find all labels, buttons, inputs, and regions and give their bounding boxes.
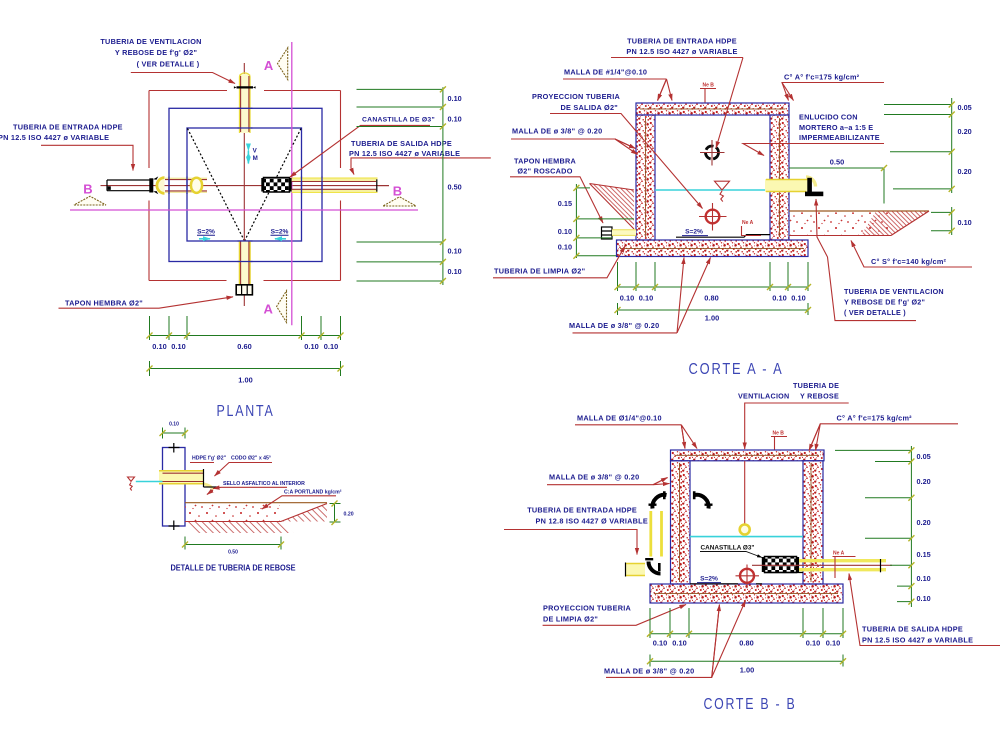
svg-text:0.10: 0.10 [639,294,653,303]
svg-text:0.10: 0.10 [448,247,462,256]
svg-text:PN 12.5 ISO 4427 ø VARIABLE: PN 12.5 ISO 4427 ø VARIABLE [0,133,109,142]
svg-text:TAPON HEMBRA: TAPON HEMBRA [514,157,577,166]
A-A right dimension chain [884,98,952,235]
elbow top inside wall [695,495,709,509]
svg-text:0.10: 0.10 [448,267,462,276]
elbow black [203,469,205,487]
svg-text:C° A° f'c=175 kg/cm²: C° A° f'c=175 kg/cm² [784,73,860,82]
entry vertical pipe yellow [651,511,662,557]
horizontal centerline [101,185,390,187]
svg-text:TUBERIA DE SALIDA HDPE: TUBERIA DE SALIDA HDPE [862,625,963,634]
svg-text:DETALLE DE TUBERIA DE REBOSE: DETALLE DE TUBERIA DE REBOSE [171,564,296,573]
A-A left dimension chain [576,184,634,258]
svg-text:TUBERIA DE ENTRADA HDPE: TUBERIA DE ENTRADA HDPE [13,123,123,132]
section line A-A magenta vertical [291,42,293,325]
svg-text:TUBERIA DE: TUBERIA DE [793,381,839,390]
svg-text:PN 12.5 ISO 4427 ø VARIABLE: PN 12.5 ISO 4427 ø VARIABLE [862,636,973,645]
inlet pipe body black [107,180,150,191]
outlet pipe right yellow [765,179,811,192]
svg-text:0.10: 0.10 [653,639,667,648]
svg-text:PROYECCION TUBERIA: PROYECCION TUBERIA [532,92,620,101]
vent pipe top: yellow body [239,74,251,133]
svg-text:MALLA DE ø 3/8" @ 0.20: MALLA DE ø 3/8" @ 0.20 [569,321,659,330]
svg-text:PN 12.5 ISO 4427 ø VARIABLE: PN 12.5 ISO 4427 ø VARIABLE [349,149,460,158]
outlet pipe yellow right [799,561,886,570]
vertical centerline [243,63,245,306]
svg-text:0.50: 0.50 [448,183,462,192]
svg-text:0.10: 0.10 [672,639,686,648]
svg-text:S=2%: S=2% [700,576,718,583]
inlet bell coupling yellow [157,178,165,194]
svg-text:Ne A: Ne A [833,551,845,557]
B-B bottom dimension row 1 [650,608,843,638]
svg-text:0.05: 0.05 [958,103,972,112]
svg-text:TUBERIA DE LIMPIA Ø2": TUBERIA DE LIMPIA Ø2" [494,267,585,276]
water line left [136,481,163,483]
drain pipe bottom: yellow body [239,241,251,285]
A-A bottom dimension row 1 [618,262,809,291]
svg-text:TUBERIA DE ENTRADA HDPE: TUBERIA DE ENTRADA HDPE [527,506,637,515]
svg-text:0.15: 0.15 [558,199,572,208]
svg-text:0.20: 0.20 [344,512,354,518]
svg-text:0.10: 0.10 [806,639,820,648]
rebose pipe yellow [159,471,204,484]
rebose pipe red walls [163,473,204,481]
canastilla basket [765,557,797,573]
svg-text:0.10: 0.10 [169,422,179,428]
svg-text:TUBERIA DE VENTILACION: TUBERIA DE VENTILACION [844,287,944,296]
drain pipe projection (red circle) [706,210,720,224]
svg-text:0.10: 0.10 [620,294,634,303]
svg-text:( VER DETALLE ): ( VER DETALLE ) [844,308,906,317]
svg-text:0.10: 0.10 [152,342,166,351]
svg-text:Ne A: Ne A [742,220,754,226]
drain stub pipe yellow [612,230,636,236]
drain red circle [740,569,754,583]
svg-text:DE SALIDA Ø2": DE SALIDA Ø2" [560,103,618,112]
svg-text:0.10: 0.10 [917,574,931,583]
vent pipe top: red walls [241,76,249,132]
svg-text:C:A PORTLAND kg/cm²: C:A PORTLAND kg/cm² [284,490,342,496]
svg-text:0.10: 0.10 [826,639,840,648]
svg-text:0.10: 0.10 [558,227,572,236]
right wall concrete [803,461,823,584]
svg-text:Y REBOSE: Y REBOSE [800,392,839,401]
section line B-B magenta horizontal [70,209,418,211]
top dim 0.10 [163,428,186,439]
svg-text:0.20: 0.20 [958,167,972,176]
planta right dimension chain [357,87,443,285]
outlet pipe yellow body [292,180,378,191]
svg-text:TUBERIA DE ENTRADA HDPE: TUBERIA DE ENTRADA HDPE [627,37,737,46]
svg-text:Y REBOSE DE f'g' Ø2": Y REBOSE DE f'g' Ø2" [844,297,925,306]
svg-text:A: A [264,58,274,73]
svg-text:PN 12.8 ISO 4427 Ø VARIABLE: PN 12.8 ISO 4427 Ø VARIABLE [536,517,648,526]
svg-text:M: M [253,155,258,162]
B-B bottom dimension row 2 [650,655,843,667]
svg-text:Ne B: Ne B [703,83,715,89]
floor slab concrete [617,240,809,257]
tapon hembra plug left [602,227,613,239]
svg-text:VENTILACION: VENTILACION [738,392,789,401]
svg-text:0.50: 0.50 [228,550,238,556]
inner blue tank square [187,128,302,241]
inlet pipe projection (black circle) [706,146,719,159]
svg-text:TUBERIA DE VENTILACION: TUBERIA DE VENTILACION [100,37,201,46]
svg-text:CANASTILLA DE Ø3": CANASTILLA DE Ø3" [362,117,435,124]
svg-text:C° S° f'c=140 kg/cm²: C° S° f'c=140 kg/cm² [871,257,947,266]
svg-text:0.05: 0.05 [917,452,931,461]
planta bottom dimension row 1 [150,316,341,340]
tapon hembra black threaded box [236,285,252,295]
entry stub pipe yellow [625,564,645,576]
svg-text:0.10: 0.10 [171,342,185,351]
svg-text:PN 12.5 ISO 4427 ø VARIABLE: PN 12.5 ISO 4427 ø VARIABLE [626,47,737,56]
right wall concrete [770,115,789,240]
svg-text:A: A [264,302,274,317]
svg-text:0.10: 0.10 [324,342,338,351]
svg-text:0.20: 0.20 [958,127,972,136]
water max level cyan arrow [247,151,249,164]
svg-text:PLANTA: PLANTA [217,403,275,420]
svg-text:0.10: 0.10 [558,243,572,252]
svg-text:IMPERMEABILIZANTE: IMPERMEABILIZANTE [799,133,880,142]
vent pipe drop + float [744,461,746,524]
outer blue wall square [169,108,322,261]
svg-text:SELLO ASFALTICO AL INTERIOR: SELLO ASFALTICO AL INTERIOR [223,481,305,487]
ground bottom line [185,521,281,523]
floor slope diagonal right [245,129,302,242]
svg-text:0.10: 0.10 [791,294,805,303]
elbow top outside [652,495,666,509]
svg-text:MALLA DE ø 3/8" @ 0.20: MALLA DE ø 3/8" @ 0.20 [604,667,694,676]
svg-text:0.80: 0.80 [704,294,718,303]
svg-text:MALLA DE ø 3/8" @ 0.20: MALLA DE ø 3/8" @ 0.20 [512,127,602,136]
vent pipe black arrow tick [237,86,254,88]
svg-text:Ø2" ROSCADO: Ø2" ROSCADO [517,167,572,176]
earth hatch left [590,184,635,230]
right dim 0.20 [330,504,341,523]
svg-text:0.20: 0.20 [917,477,931,486]
svg-text:0.15: 0.15 [917,550,931,559]
svg-text:0.10: 0.10 [304,342,318,351]
svg-text:1.00: 1.00 [705,314,719,323]
svg-text:MALLA DE #1/4"@0.10: MALLA DE #1/4"@0.10 [564,68,647,77]
svg-text:PROYECCION TUBERIA: PROYECCION TUBERIA [543,604,631,613]
svg-text:MALLA DE ø 3/8" @ 0.20: MALLA DE ø 3/8" @ 0.20 [549,473,639,482]
top slab concrete [636,103,789,115]
svg-text:0.60: 0.60 [237,342,251,351]
rebar center lines [654,455,838,593]
A-A bottom dimension row 2 [618,303,809,315]
svg-text:CANASTILLA Ø3": CANASTILLA Ø3" [701,545,755,552]
svg-text:CODO Ø2" x 45°: CODO Ø2" x 45° [231,456,271,462]
ground right surface [789,210,929,212]
water level symbol small [128,477,135,490]
outlet elbow black [807,178,812,192]
wall axis ticks [173,443,175,530]
svg-text:0.10: 0.10 [917,594,931,603]
inlet ring coupling yellow [191,178,202,193]
drain pipe bottom: red walls [241,241,249,284]
canastilla (outlet basket) [264,178,290,193]
svg-text:1.00: 1.00 [740,666,754,675]
ground surface line [185,502,327,504]
svg-text:Y REBOSE DE f'g' Ø2": Y REBOSE DE f'g' Ø2" [115,48,197,57]
top slab concrete [671,450,825,461]
svg-text:0.10: 0.10 [448,94,462,103]
svg-text:B: B [83,182,92,197]
outer wall red square with pipe gaps [149,91,341,281]
floor slope diagonal left [188,129,245,242]
ground slope hatch wedge [281,504,327,522]
floor line black [690,573,803,584]
svg-text:HDPE f'g' Ø2": HDPE f'g' Ø2" [192,456,227,462]
svg-text:B: B [393,184,402,199]
ground bottom hatch band [185,522,294,534]
svg-text:0.80: 0.80 [739,639,753,648]
svg-text:0.10: 0.10 [448,115,462,124]
inlet pipe end arrows [153,176,158,179]
ground fill speckle [185,504,280,522]
left wall concrete [671,461,691,584]
left wall concrete [636,115,655,240]
svg-text:TAPON HEMBRA Ø2": TAPON HEMBRA Ø2" [65,299,143,308]
svg-text:ENLUCIDO CON: ENLUCIDO CON [799,113,858,122]
svg-text:MALLA DE Ø1/4"@0.10: MALLA DE Ø1/4"@0.10 [577,414,662,423]
wall lines over pipes [169,108,322,261]
water level symbol [715,181,730,201]
bottom dim 0.50 [185,537,281,550]
svg-text:0.10: 0.10 [958,218,972,227]
svg-text:CORTE B - B: CORTE B - B [704,696,797,713]
svg-text:CORTE A - A: CORTE A - A [689,361,784,378]
rebar center lines [620,109,804,249]
svg-text:S=2%: S=2% [685,229,703,236]
planta bottom dimension row 2 (total) [150,361,341,376]
svg-text:S=2%: S=2% [197,229,215,236]
floor slab concrete [650,584,843,603]
svg-text:Ne B: Ne B [773,431,785,437]
svg-text:S=2%: S=2% [271,229,289,236]
svg-text:0.20: 0.20 [917,518,931,527]
svg-text:TUBERIA DE SALIDA HDPE: TUBERIA DE SALIDA HDPE [351,139,452,148]
svg-text:0.10: 0.10 [772,294,786,303]
B-B right dimension chain [835,446,911,607]
svg-text:C° A° f'c=175 kg/cm²: C° A° f'c=175 kg/cm² [837,414,913,423]
wall section [163,448,186,527]
water line [655,189,770,191]
elbow bottom [649,562,661,574]
outlet pipe end tick [376,179,378,191]
svg-text:1.00: 1.00 [238,376,252,385]
water line [690,536,803,538]
svg-text:MORTERO a–a 1:5 E: MORTERO a–a 1:5 E [799,123,873,132]
svg-text:( VER DETALLE ): ( VER DETALLE ) [137,60,200,69]
inlet wall-crossing pipe lines [165,178,207,192]
svg-text:0.50: 0.50 [830,158,844,167]
svg-text:DE LIMPIA Ø2": DE LIMPIA Ø2" [543,615,598,624]
outlet pipe red walls [292,182,376,190]
